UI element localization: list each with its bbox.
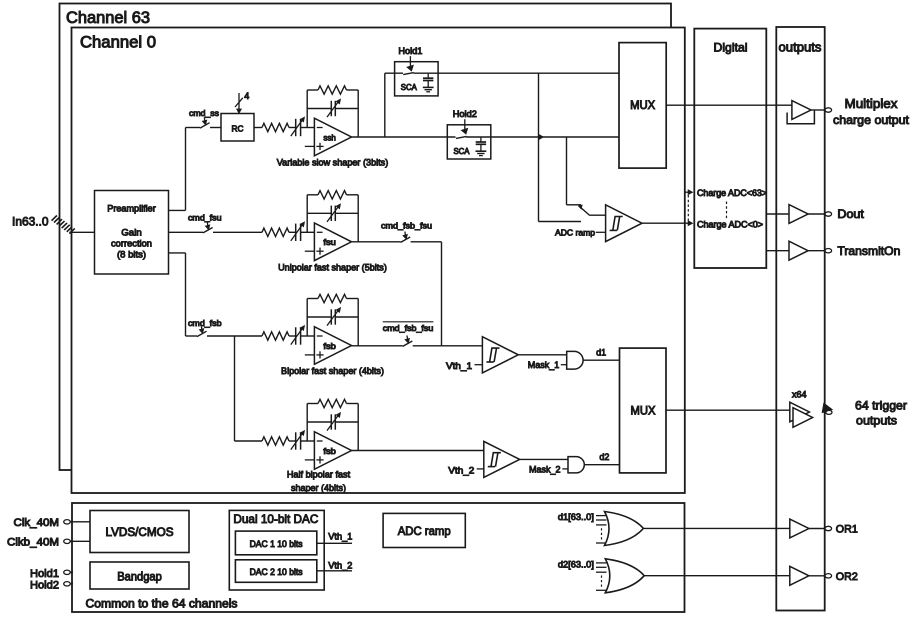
wire half bipolar output bbox=[352, 450, 484, 452]
svg-text:4: 4 bbox=[244, 91, 249, 101]
pin multiplex charge output bbox=[825, 108, 832, 112]
pin 64 trigger outputs bbox=[826, 410, 832, 414]
svg-text:(8 bits): (8 bits) bbox=[117, 250, 146, 261]
wire charge ADC<63> arrow bbox=[684, 191, 688, 193]
comparator ADC (Wilkinson) bbox=[606, 205, 642, 242]
DAC 1 block bbox=[235, 531, 316, 555]
ADC ramp block bbox=[383, 513, 465, 547]
wire discriminator 2 output bbox=[520, 458, 568, 460]
wire SCA2 branch down to ADC switch bbox=[566, 137, 568, 205]
svg-text:Hold2: Hold2 bbox=[30, 580, 59, 592]
bus width 4 indicator bbox=[238, 93, 240, 110]
svg-text:Preamplifier: Preamplifier bbox=[107, 204, 156, 215]
svg-text:d2: d2 bbox=[599, 452, 609, 463]
AND gate Mask_1 bbox=[567, 351, 583, 369]
op-amp fsb (half bipolar fast shaper) bbox=[314, 432, 351, 470]
svg-text:SCA: SCA bbox=[454, 147, 471, 156]
wire OR1 to buffer bbox=[643, 527, 789, 529]
svg-text:Hold1: Hold1 bbox=[398, 46, 422, 56]
buffer OR2 bbox=[790, 566, 809, 585]
variable capacitor series unipolar fast shaper bbox=[295, 224, 297, 241]
variable capacitor series bipolar fast shaper bbox=[295, 327, 297, 344]
hold control arrow Hold2 bbox=[464, 119, 466, 130]
outputs block bbox=[776, 27, 824, 611]
svg-text:SCA: SCA bbox=[401, 83, 418, 92]
op-amp ssh (slow shaper) bbox=[314, 118, 351, 156]
switch cmd_fsb_fsu bbox=[401, 237, 411, 242]
bandgap block bbox=[90, 562, 189, 589]
svg-text:outputs: outputs bbox=[779, 40, 822, 54]
channel 0 box bbox=[72, 28, 685, 494]
svg-text:LVDS/CMOS: LVDS/CMOS bbox=[106, 527, 174, 539]
RC block bbox=[221, 114, 254, 142]
wire fsb output bbox=[352, 345, 403, 347]
dual 10-bit DAC block bbox=[229, 510, 324, 590]
svg-text:cmd_fsb_fsu: cmd_fsb_fsu bbox=[381, 221, 432, 231]
svg-text:Vth_2: Vth_2 bbox=[448, 466, 474, 477]
wire MUX output to multiplex buffer bbox=[666, 104, 792, 106]
dashed bus charge ADC bbox=[687, 195, 689, 221]
wire RC to slow shaper bbox=[254, 127, 262, 129]
resistor feedback bipolar fast shaper bbox=[318, 294, 347, 302]
buffer 64 trigger outputs (stacked) bbox=[790, 402, 810, 422]
svg-text:DAC 2 10 bits: DAC 2 10 bits bbox=[250, 567, 304, 577]
wire preamp bottom output to bipolar shaper row bbox=[169, 252, 186, 254]
pin OR1 bbox=[825, 526, 832, 530]
wire SCA1 branch down to ADC switch bbox=[538, 73, 540, 221]
feedback loop of buffer bbox=[787, 111, 814, 124]
svg-text:d1: d1 bbox=[596, 347, 606, 358]
svg-text:Multiplex: Multiplex bbox=[845, 96, 899, 111]
svg-text:cmd_ss: cmd_ss bbox=[189, 108, 219, 118]
svg-text:charge output: charge output bbox=[833, 113, 910, 127]
svg-text:fsu: fsu bbox=[323, 237, 336, 247]
svg-text:Vth_1: Vth_1 bbox=[446, 361, 472, 372]
svg-text:Mask_2: Mask_2 bbox=[529, 464, 561, 475]
variable capacitor series half bipolar fast shaper bbox=[295, 432, 297, 449]
wire preamp middle output bbox=[169, 231, 204, 233]
resistor feedback unipolar fast shaper bbox=[318, 191, 347, 199]
svg-text:Bandgap: Bandgap bbox=[117, 571, 162, 583]
resistor feedback slow shaper bbox=[318, 86, 347, 94]
SCA block (Hold1) bbox=[395, 62, 439, 96]
buffer multiplex charge output bbox=[792, 101, 811, 120]
wire OR2 to buffer bbox=[644, 575, 790, 577]
svg-text:Charge ADC<63>: Charge ADC<63> bbox=[697, 188, 767, 198]
svg-text:shaper (4bits): shaper (4bits) bbox=[291, 483, 346, 494]
svg-text:Clkb_40M: Clkb_40M bbox=[7, 537, 59, 549]
capacitor feedback bipolar fast shaper bbox=[307, 316, 331, 318]
switch inside SCA (Hold1) bbox=[403, 73, 414, 75]
svg-text:cmd_fsu: cmd_fsu bbox=[188, 213, 222, 223]
svg-text:ADC ramp: ADC ramp bbox=[398, 526, 451, 538]
preamplifier block bbox=[95, 191, 169, 275]
capacitor feedback unipolar fast shaper bbox=[307, 212, 331, 214]
svg-text:cmd_fsb_fsu: cmd_fsb_fsu bbox=[383, 323, 434, 333]
switch inside SCA (Hold2) bbox=[456, 136, 467, 138]
svg-text:Half bipolar fast: Half bipolar fast bbox=[287, 470, 351, 481]
svg-text:Hold1: Hold1 bbox=[30, 568, 59, 580]
svg-text:OR2: OR2 bbox=[836, 571, 858, 583]
op-amp fsu (unipolar fast shaper) bbox=[314, 223, 351, 261]
comparator Vth_2 discriminator bbox=[484, 441, 520, 477]
digital block bbox=[694, 29, 766, 268]
resistor series bipolar fast shaper bbox=[262, 332, 289, 340]
MUX analog block bbox=[619, 43, 666, 169]
svg-text:Hold2: Hold2 bbox=[453, 109, 477, 119]
svg-text:64 trigger: 64 trigger bbox=[855, 398, 907, 412]
wire ssh output row bbox=[352, 136, 456, 138]
svg-text:Bipolar fast shaper (4bits): Bipolar fast shaper (4bits) bbox=[281, 366, 384, 377]
resistor series unipolar fast shaper bbox=[262, 228, 289, 236]
LVDS/CMOS block bbox=[90, 511, 189, 553]
svg-text:OR1: OR1 bbox=[836, 524, 858, 536]
resistor feedback half bipolar fast shaper bbox=[318, 399, 347, 407]
svg-text:Channel 0: Channel 0 bbox=[80, 34, 156, 52]
wire into half bipolar shaper bbox=[235, 440, 263, 442]
wire fsu branch down to trigger row bbox=[441, 242, 443, 346]
DAC 2 block bbox=[235, 560, 316, 583]
capacitor feedback slow shaper bbox=[307, 108, 331, 110]
wire fsu output bbox=[352, 241, 401, 243]
svg-text:Charge ADC<0>: Charge ADC<0> bbox=[697, 220, 763, 230]
pin Dout bbox=[825, 212, 832, 216]
svg-text:Vth_1: Vth_1 bbox=[328, 531, 352, 542]
wire SCA1 row bbox=[385, 72, 403, 74]
feedback network bipolar fast shaper bbox=[306, 299, 308, 337]
wire digital to TransmitOn buffer bbox=[766, 250, 789, 252]
wire discriminator 1 output bbox=[518, 354, 566, 356]
svg-text:MUX: MUX bbox=[630, 100, 655, 112]
wire input to preamplifier bbox=[70, 231, 95, 233]
wire d2 to trigger MUX bbox=[584, 464, 619, 466]
svg-text:TransmitOn: TransmitOn bbox=[837, 244, 900, 258]
svg-text:Common to the 64 channels: Common to the 64 channels bbox=[86, 599, 238, 611]
resistor series slow shaper bbox=[262, 123, 289, 131]
svg-text:outputs: outputs bbox=[856, 413, 897, 427]
svg-text:correction: correction bbox=[111, 239, 152, 250]
op-amp fsb (bipolar fast shaper) bbox=[314, 327, 351, 365]
wire digital to Dout buffer bbox=[766, 213, 789, 215]
svg-text:x64: x64 bbox=[792, 390, 807, 400]
svg-text:Digital: Digital bbox=[714, 40, 748, 54]
svg-text:Channel 63: Channel 63 bbox=[66, 9, 150, 27]
SCA block (Hold2) bbox=[447, 125, 491, 159]
feedback network unipolar fast shaper bbox=[306, 195, 308, 233]
storage capacitor + ground (Hold2) bbox=[480, 137, 482, 142]
buffer OR1 bbox=[790, 519, 809, 538]
dashed line between charge ADC labels bbox=[726, 202, 728, 220]
switch cmd_ss bbox=[200, 123, 210, 128]
pin OR2 bbox=[825, 574, 832, 578]
svg-text:In63..0: In63..0 bbox=[12, 215, 49, 229]
capacitor feedback half bipolar fast shaper bbox=[307, 421, 331, 423]
svg-text:ssh: ssh bbox=[323, 132, 336, 142]
wire comparator output to digital bbox=[642, 222, 689, 224]
svg-text:RC: RC bbox=[232, 124, 244, 134]
svg-text:Gain: Gain bbox=[121, 228, 142, 239]
svg-text:cmd_fsb: cmd_fsb bbox=[188, 318, 222, 328]
ADC select switch bbox=[578, 205, 582, 209]
AND gate Mask_2 bbox=[568, 457, 584, 473]
wire riser to SCA1 row bbox=[384, 73, 386, 137]
OR gate d1 bbox=[596, 515, 607, 517]
svg-text:MUX: MUX bbox=[631, 405, 656, 417]
switch cmd_fsb bbox=[197, 331, 207, 336]
channel 63 box bbox=[60, 4, 672, 471]
svg-text:Unipolar fast shaper (5bits): Unipolar fast shaper (5bits) bbox=[278, 262, 387, 273]
svg-text:fsb: fsb bbox=[323, 341, 336, 351]
buffer Dout bbox=[789, 205, 808, 224]
svg-text:Clk_40M: Clk_40M bbox=[14, 517, 60, 529]
wire preamp top output to slow shaper row bbox=[169, 209, 186, 211]
buffer TransmitOn bbox=[789, 241, 808, 260]
OR gate d2 bbox=[596, 562, 607, 564]
svg-text:Mask_1: Mask_1 bbox=[528, 360, 560, 371]
wire d1 to trigger MUX bbox=[583, 359, 619, 361]
svg-text:Vth_2: Vth_2 bbox=[328, 561, 352, 572]
svg-text:Variable slow shaper (3bits): Variable slow shaper (3bits) bbox=[277, 158, 389, 169]
variable capacitor series slow shaper bbox=[295, 119, 297, 136]
wire trigger MUX output bbox=[666, 409, 790, 411]
hold control arrow Hold1 bbox=[409, 56, 411, 67]
common to the 64 channels box bbox=[72, 503, 685, 612]
svg-text:DAC 1 10 bits: DAC 1 10 bits bbox=[250, 539, 304, 549]
svg-text:ADC ramp: ADC ramp bbox=[555, 228, 595, 238]
resistor series half bipolar fast shaper bbox=[262, 437, 289, 445]
svg-text:Dual 10-bit DAC: Dual 10-bit DAC bbox=[233, 512, 318, 526]
svg-text:Dout: Dout bbox=[837, 207, 864, 221]
svg-text:fsb: fsb bbox=[323, 446, 336, 456]
feedback network half bipolar fast shaper bbox=[306, 404, 308, 442]
MUX trigger block bbox=[620, 348, 667, 473]
junction arrow on mux row bbox=[539, 134, 544, 139]
storage capacitor + ground (Hold1) bbox=[427, 73, 429, 78]
pin TransmitOn bbox=[825, 249, 832, 253]
feedback network slow shaper bbox=[306, 90, 308, 128]
switch cmd_fsb_fsu inverted bbox=[403, 341, 413, 346]
svg-text:d1[63..0]: d1[63..0] bbox=[558, 512, 594, 522]
comparator Vth_1 discriminator bbox=[482, 337, 518, 373]
wire branch to half bipolar shaper bbox=[234, 336, 236, 441]
input bus hatch symbol bbox=[52, 216, 57, 221]
svg-text:d2[63..0]: d2[63..0] bbox=[558, 559, 594, 569]
